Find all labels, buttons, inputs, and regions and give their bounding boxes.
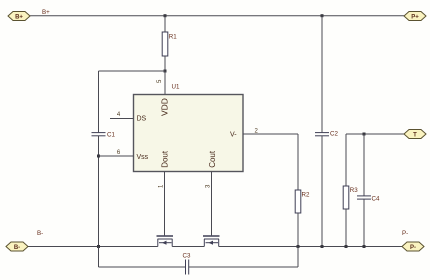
node junction bottom rail / R3 branch [345, 245, 348, 248]
svg-text:P-: P- [410, 245, 416, 251]
svg-text:Dout: Dout [160, 150, 169, 168]
wire pin 2 horizontal [243, 133, 298, 135]
resistor R2 [295, 190, 301, 213]
transistor Q1 (NMOS left) [157, 236, 174, 247]
svg-text:3: 3 [206, 184, 212, 188]
wire top rail B+ to P+ [30, 15, 404, 17]
wire bottom rail Q1 to Q2 [172, 246, 204, 248]
node junction pin5 / C1 branch [164, 70, 167, 73]
wire bottom rail B- to Q1 [28, 246, 158, 248]
node junction T net / C4 branch [363, 133, 366, 136]
wire R1 bottom lead to pin5 junction [164, 56, 166, 71]
svg-text:B-: B- [14, 245, 20, 251]
wire C1 branch vertical upper [98, 71, 100, 132]
wire C3 bypass left vertical [98, 247, 100, 268]
svg-text:R1: R1 [169, 34, 177, 41]
port P- [402, 242, 424, 251]
wire R2 bottom lead [297, 213, 299, 247]
wire C4 branch vertical upper [363, 134, 365, 196]
port T [404, 130, 426, 139]
svg-text:C1: C1 [107, 132, 115, 139]
svg-text:5: 5 [157, 79, 163, 83]
wire C1 branch vertical lower [98, 136, 100, 247]
svg-text:6: 6 [117, 150, 121, 156]
wire pin 6 [99, 155, 134, 157]
node junction bottom rail / C2 branch [321, 245, 324, 248]
node junction bottom rail / C1 branch [97, 245, 100, 248]
svg-text:B+: B+ [15, 15, 23, 21]
wire C4 branch vertical lower [363, 199, 365, 246]
wire C2 branch vertical lower [321, 136, 323, 247]
svg-text:VDD: VDD [160, 98, 170, 116]
svg-text:DS: DS [137, 116, 147, 123]
wire pin 1 to Q1 gate [164, 172, 166, 236]
port P+ [404, 12, 426, 21]
svg-text:Vss: Vss [137, 154, 149, 161]
node junction bottom rail / R2 branch [297, 245, 300, 248]
wire pin 2 branch vertical to R2 [297, 134, 299, 190]
wire R1 top lead [164, 16, 166, 32]
svg-text:C2: C2 [330, 131, 338, 138]
node junction C1 branch / pin 6 [97, 155, 100, 158]
svg-text:P+: P+ [411, 15, 419, 21]
wire T net horizontal [346, 133, 404, 135]
wire R3 bottom lead [345, 209, 347, 247]
wire pin 3 to Q2 gate [211, 172, 213, 236]
svg-text:U1: U1 [172, 84, 180, 91]
capacitor C4 [357, 196, 371, 199]
wire junction to C1 branch horizontal [99, 70, 166, 72]
svg-text:Cout: Cout [208, 150, 217, 168]
node junction top rail / C2 branch [321, 14, 324, 17]
port B+ [8, 12, 30, 21]
svg-text:B+: B+ [42, 9, 50, 16]
svg-text:B-: B- [37, 230, 43, 237]
svg-text:C4: C4 [372, 196, 380, 203]
svg-text:C3: C3 [183, 253, 191, 260]
resistor R1 [162, 32, 168, 56]
svg-text:P-: P- [402, 230, 408, 237]
resistor R3 [343, 186, 349, 209]
capacitor C2 [315, 133, 329, 136]
capacitor C3 [186, 260, 189, 275]
wire R3 branch vertical upper [345, 134, 347, 186]
wire C2 branch vertical upper [321, 16, 323, 133]
svg-text:R3: R3 [350, 187, 358, 194]
svg-text:R2: R2 [302, 192, 310, 199]
svg-text:4: 4 [117, 112, 121, 118]
port B- [6, 242, 28, 251]
wire C3 bypass right vertical [297, 247, 299, 268]
svg-text:1: 1 [159, 184, 165, 188]
svg-text:V-: V- [230, 132, 237, 139]
IC U1 body [134, 95, 244, 172]
wire C3 bypass lower horizontal right [189, 266, 298, 268]
svg-text:T: T [413, 133, 417, 139]
wire pin 5 into U1 [164, 71, 166, 95]
wire bottom rail Q2 to P- [219, 246, 402, 248]
transistor Q2 (NMOS right) [203, 236, 220, 247]
wire pin 4 stub [110, 118, 134, 120]
node junction top rail / R1 [164, 14, 167, 17]
capacitor C1 [92, 133, 106, 136]
node junction bottom rail / C4 branch [363, 245, 366, 248]
wire C3 bypass lower horizontal left [99, 266, 186, 268]
